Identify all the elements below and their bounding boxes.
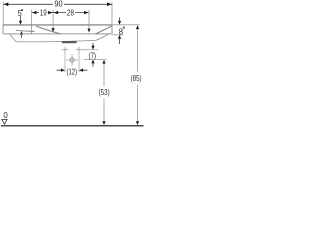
dimension (12) left arrow xyxy=(57,69,62,71)
fixing hole left cross xyxy=(62,47,68,53)
svg-text:8: 8 xyxy=(119,26,123,36)
fixing hole axis line xyxy=(82,49,98,51)
extension arrow onto deck x=53 xyxy=(52,28,55,32)
angle 8 deg lower arrow xyxy=(119,39,121,44)
svg-text:(12): (12) xyxy=(67,67,78,77)
dimension (85) line upper xyxy=(137,28,139,71)
angle 5 deg lower arrow xyxy=(21,34,23,37)
bowl underside xyxy=(16,34,109,42)
shelf slope right (8 deg) xyxy=(96,26,113,34)
fixing hole ext line left xyxy=(64,53,66,72)
8 deg bottom tick xyxy=(112,34,124,36)
dimension 90 line xyxy=(3,3,112,5)
extension arrow onto deck x=89 xyxy=(87,29,90,33)
drain axis line xyxy=(84,59,107,61)
8 deg top tick xyxy=(112,24,140,26)
bowl chamfer left xyxy=(10,34,17,42)
svg-text:19: 19 xyxy=(40,8,47,18)
background xyxy=(0,0,144,131)
deck 5 deg surface line xyxy=(16,30,34,31)
basin top edge xyxy=(3,24,112,26)
extension line left (x=3) xyxy=(2,2,4,25)
dimension 19 line xyxy=(32,12,53,14)
svg-text:(85): (85) xyxy=(131,73,142,83)
dimension (53) line lower xyxy=(103,99,105,122)
fixing hole right cross xyxy=(76,47,82,53)
basin right edge xyxy=(111,25,113,34)
basin left edge xyxy=(2,25,4,34)
dimension 90 arrow right xyxy=(107,2,112,6)
svg-text:90: 90 xyxy=(54,0,62,8)
dimension 28 arrow left xyxy=(54,11,59,14)
extension line x=30.75 (tap hole) xyxy=(30,10,32,34)
dimension 90 arrow left xyxy=(4,2,9,6)
dimension (7) upper arrow xyxy=(92,43,94,47)
drain crosshair xyxy=(70,58,74,62)
tap hole cross xyxy=(28,30,34,32)
angle 8 deg upper arrow xyxy=(119,18,121,22)
extension line x=53 xyxy=(52,10,54,29)
dimension 28 arrow right xyxy=(84,11,89,14)
dimension 28 line xyxy=(53,12,88,14)
dimension (7) lower arrow xyxy=(92,63,94,67)
dimension 19 arrow left xyxy=(32,11,37,14)
svg-text:(7): (7) xyxy=(89,50,97,60)
extension line x=89 xyxy=(88,10,90,30)
bowl inner slope left xyxy=(36,26,61,34)
svg-text:28: 28 xyxy=(67,8,74,18)
dimension (53) line upper xyxy=(103,63,105,86)
basin bottom edge xyxy=(3,33,112,35)
svg-text:(53): (53) xyxy=(99,87,110,97)
floor line xyxy=(1,125,144,127)
angle 5 deg upper arrow xyxy=(20,16,22,21)
drain shadow xyxy=(62,41,77,43)
datum triangle xyxy=(2,119,7,124)
extension line right (x=112) xyxy=(111,2,113,25)
svg-text:0: 0 xyxy=(3,111,8,120)
dimension 19 arrow right xyxy=(48,11,53,14)
fixing hole ext line right xyxy=(78,53,80,72)
dimension (85) line lower xyxy=(137,85,139,122)
dimension (12) right arrow xyxy=(83,69,88,71)
